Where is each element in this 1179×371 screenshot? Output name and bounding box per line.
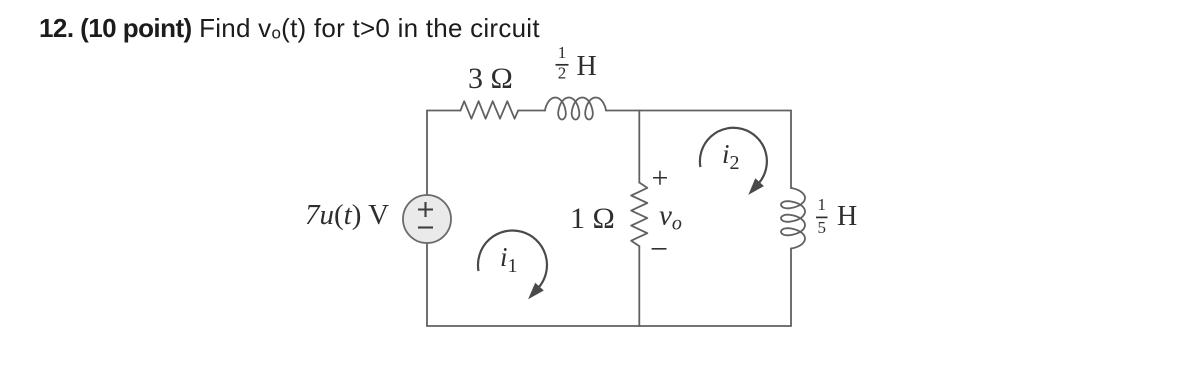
label 1/2 H fraction xyxy=(558,43,567,83)
svg-text:−: − xyxy=(650,231,668,267)
svg-text:5: 5 xyxy=(817,218,826,237)
svg-text:1 Ω: 1 Ω xyxy=(570,202,615,235)
arrowhead i1 xyxy=(528,283,544,300)
arrowhead i2 xyxy=(748,178,764,195)
wire top-right horizontal xyxy=(606,110,791,112)
wire left upper vertical xyxy=(426,111,428,196)
svg-text:H: H xyxy=(577,51,597,82)
wire middle upper vertical xyxy=(638,111,640,183)
voltage source VS 7u(t) circle xyxy=(403,195,451,243)
mesh current arc i2 xyxy=(700,128,767,184)
wire between resistor and inductor xyxy=(518,110,545,112)
resistor R 1ohm zigzag xyxy=(631,183,647,247)
svg-text:1: 1 xyxy=(817,195,826,214)
wire right upper vertical xyxy=(790,111,792,189)
wire top-left horizontal xyxy=(427,110,461,112)
svg-text:7u(t) V: 7u(t) V xyxy=(305,199,389,231)
svg-text:H: H xyxy=(837,201,857,232)
svg-text:+: + xyxy=(652,161,669,194)
voltage source minus sign xyxy=(418,226,433,228)
mesh current arc i1 xyxy=(478,231,547,289)
wire bottom horizontal xyxy=(427,325,791,327)
wire middle lower vertical xyxy=(638,246,640,326)
fraction bar 1/2 xyxy=(556,64,569,66)
svg-text:3 Ω: 3 Ω xyxy=(468,62,513,95)
wire right lower vertical xyxy=(790,249,792,327)
label 1/5 H fraction xyxy=(817,195,826,237)
voltage source plus sign xyxy=(418,202,433,217)
svg-text:i1: i1 xyxy=(500,242,518,277)
title xyxy=(39,13,540,44)
svg-text:vo: vo xyxy=(659,200,682,235)
svg-text:i2: i2 xyxy=(722,139,740,174)
inductor L 1/5H coil xyxy=(781,188,805,249)
svg-text:2: 2 xyxy=(558,64,567,83)
fraction bar 1/5 xyxy=(816,216,828,218)
resistor R 3ohm zigzag xyxy=(461,101,519,119)
inductor L 1/2H coil xyxy=(545,98,606,120)
wire left lower vertical xyxy=(426,243,428,326)
svg-text:1: 1 xyxy=(558,43,567,62)
